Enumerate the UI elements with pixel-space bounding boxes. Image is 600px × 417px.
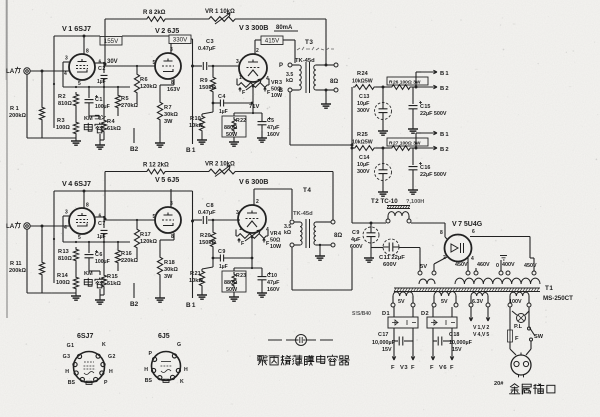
wire coupling ch2 [193, 219, 241, 222]
svg-text:163V: 163V [167, 87, 180, 93]
pin BS 6J5 [145, 376, 162, 384]
capacitor C17 10000u [394, 337, 413, 346]
label 电容 ch2 [84, 278, 104, 288]
terminal T1 5V-b [432, 271, 436, 275]
ground under C10 [257, 293, 267, 297]
pin 8 V7 [440, 230, 443, 236]
svg-text:300V: 300V [357, 108, 370, 114]
svg-text:MS-250CT: MS-250CT [543, 295, 573, 302]
ground under R22 [229, 137, 239, 146]
label 163V ch1 [167, 87, 180, 93]
svg-text:H: H [109, 369, 113, 375]
svg-text:V 6 300B: V 6 300B [239, 177, 268, 186]
terminal T1 HV-5 [532, 271, 536, 275]
svg-text:5V: 5V [398, 299, 405, 305]
svg-text:3: 3 [236, 210, 239, 216]
wire screen pin6 ch1 [95, 62, 105, 73]
svg-text:220kΩ: 220kΩ [121, 258, 138, 264]
svg-text:6J5: 6J5 [158, 333, 170, 340]
label 5V rectifier winding [420, 264, 427, 270]
svg-text:8Ω: 8Ω [330, 79, 338, 85]
svg-text:5: 5 [78, 81, 81, 87]
wire cathode V5 [160, 233, 174, 255]
label C17 value [372, 332, 396, 353]
label C8 0.47µF [198, 203, 216, 216]
pin P 6SJ7 [94, 377, 108, 386]
label R17 120kΩ [140, 232, 157, 245]
wire NFB to output transformer ch2 [332, 172, 334, 221]
tube V1 6SJ7 [69, 54, 95, 80]
svg-text:270kΩ: 270kΩ [121, 103, 138, 109]
pin 5 V5 [153, 214, 156, 220]
svg-text:160V: 160V [267, 132, 280, 138]
wire plate rail ch1 [54, 35, 169, 37]
svg-text:B 2: B 2 [440, 86, 449, 92]
label D1 [382, 311, 390, 317]
svg-text:R 9: R 9 [200, 78, 208, 84]
label C13 10µF 300V [357, 94, 370, 114]
svg-text:0: 0 [496, 263, 499, 269]
socket 6J5 internal [161, 362, 172, 373]
svg-text:V 1,V 2: V 1,V 2 [473, 325, 489, 331]
lamp P.L pilot [512, 311, 529, 323]
ground under R7 [155, 122, 165, 147]
svg-text:VR 2 10kΩ: VR 2 10kΩ [205, 162, 235, 168]
label T4 [303, 187, 311, 194]
ground T3 secondary [321, 90, 331, 108]
wire B2 feed ch2 [133, 283, 135, 298]
pin 2 V6 [256, 199, 259, 205]
svg-text:R 22: R 22 [236, 118, 246, 124]
switch SW [528, 327, 536, 341]
label T4 type [293, 211, 313, 217]
svg-text:R 25: R 25 [357, 132, 368, 138]
svg-text:8Ω: 8Ω [334, 233, 342, 239]
label 6.3V winding [472, 299, 483, 305]
resistor R1 200k [39, 105, 44, 122]
svg-text:10kΩ: 10kΩ [189, 278, 203, 284]
wire D1 outputs [394, 328, 413, 352]
svg-text:100µF: 100µF [95, 104, 110, 110]
resistor R24 10k 5W [353, 85, 376, 90]
tube V7 5U4G [445, 235, 472, 262]
resistor R12 2k [145, 169, 167, 174]
wire filter input rail [351, 87, 354, 223]
label F V&#8202;3 F [391, 365, 415, 371]
label 6J5 base [158, 333, 170, 340]
label 415V plate voltage [261, 36, 283, 45]
svg-text:2: 2 [256, 48, 259, 54]
resistor R5 270k/220k [115, 87, 120, 116]
svg-text:K: K [180, 379, 184, 385]
capacitor C18 10000u [433, 337, 452, 346]
svg-text:R 3: R 3 [57, 118, 65, 124]
label T3 type [295, 58, 315, 64]
wire scan-edge line [6, 0, 7, 318]
wire HV3 center tap [500, 256, 507, 272]
label C4 1µF [218, 94, 228, 115]
label R8 2kΩ [143, 10, 166, 16]
svg-text:D 1: D 1 [382, 311, 390, 317]
rectifier D1 selenium [388, 307, 418, 328]
label R1 200kΩ [9, 106, 26, 119]
wire plate V4 to rail [83, 190, 86, 209]
terminal T2 left [386, 219, 390, 223]
connector mains plug [511, 353, 531, 378]
socket 6J5 outline [152, 352, 181, 383]
svg-text:R 11: R 11 [10, 261, 22, 267]
svg-text:C 9: C 9 [352, 230, 359, 236]
svg-text:1µF: 1µF [97, 79, 106, 85]
label tube V5 6J5 [155, 175, 179, 184]
label C5 47µF 160V [267, 118, 280, 138]
svg-text:SW: SW [534, 334, 544, 340]
label T3 impedance [286, 72, 293, 84]
svg-text:C 6: C 6 [95, 252, 102, 258]
wire filter rail R25 [376, 147, 434, 150]
pin 3 V5 [170, 201, 173, 207]
label R13 810Ω [58, 249, 72, 262]
svg-text:KM: KM [84, 271, 93, 277]
svg-text:6: 6 [472, 229, 475, 235]
svg-text:22µF 500V: 22µF 500V [420, 172, 447, 178]
label 6SJ7 base [77, 333, 93, 340]
svg-text:H: H [65, 369, 69, 375]
svg-text:30kΩ: 30kΩ [164, 267, 178, 273]
svg-text:P: P [104, 380, 108, 386]
svg-text:150kΩ: 150kΩ [199, 85, 216, 91]
ground under R23 [229, 292, 239, 301]
label R3 100Ω [56, 118, 70, 131]
svg-text:10µF: 10µF [357, 101, 370, 107]
wire NFB to output transformer ch1 [325, 19, 327, 64]
svg-text:V 2 6J5: V 2 6J5 [155, 26, 179, 35]
resistor R2 810 [73, 92, 78, 108]
label F filament right ch2 [263, 239, 270, 248]
terminal 6.3V a [469, 303, 473, 307]
pin 6 V4 [99, 214, 102, 220]
svg-text:F: F [430, 365, 434, 371]
transformer T3 secondary coil [314, 65, 326, 90]
label 金属插口 [509, 384, 554, 394]
label 30V ch2 [0, 0, 1, 1]
wire D2 outputs [433, 328, 452, 352]
svg-text:1: 1 [239, 75, 242, 81]
label R15 value [107, 274, 121, 287]
ground T4 secondary [315, 244, 325, 260]
terminal 100V a [508, 303, 512, 307]
svg-text:F: F [411, 365, 415, 371]
svg-text:10kΩ: 10kΩ [189, 123, 203, 129]
fuse F [508, 330, 513, 342]
svg-text:330V: 330V [173, 36, 188, 43]
tube V5 6J5 [155, 207, 181, 233]
svg-text:4: 4 [64, 71, 67, 77]
ground under R10 [197, 133, 207, 144]
transformer T4 primary coil [300, 222, 302, 245]
pin 3 V1 [65, 56, 68, 62]
label 5V winding [398, 299, 405, 305]
svg-text:LA: LA [6, 223, 15, 230]
svg-text:C 16: C 16 [420, 165, 430, 171]
label C9 4µF 600V [350, 230, 363, 250]
transformer T4 secondary coil [314, 222, 331, 245]
svg-text:H: H [144, 367, 148, 373]
label VR3 50Ω 10W [271, 80, 283, 99]
svg-text:3: 3 [65, 56, 68, 62]
svg-text:TK-45d: TK-45d [293, 211, 313, 217]
capacitor C14 10u circle [375, 148, 392, 181]
resistor R16 270k/220k [115, 242, 120, 271]
resistor R22 880 50W [222, 116, 246, 137]
transformer T4 primary terminal B [290, 243, 300, 247]
terminal 5V a [391, 303, 395, 307]
terminal 5V b [454, 303, 458, 307]
label 20# [494, 381, 504, 387]
pin G 6J5 [172, 342, 181, 358]
svg-text:200kΩ: 200kΩ [9, 268, 26, 274]
coil T1 HV top [455, 278, 540, 284]
pin P 6J5 [149, 351, 157, 362]
svg-text:R 24: R 24 [357, 71, 369, 77]
svg-text:5: 5 [153, 60, 156, 66]
label R6 120kΩ [140, 77, 157, 90]
svg-text:kΩ: kΩ [284, 230, 291, 236]
wire plate rail ch2 [54, 190, 169, 192]
label R21 10kΩ [189, 271, 203, 284]
resistor R9 150k [210, 66, 215, 94]
pin 6 V1 [99, 60, 102, 66]
svg-text:460V: 460V [477, 262, 490, 268]
svg-text:H: H [184, 367, 188, 373]
label 400V tap [502, 262, 515, 268]
terminal 5V b [411, 303, 415, 307]
wire B1 arrow row R24 [421, 70, 449, 77]
svg-text:V 6: V 6 [439, 365, 447, 371]
label tube V3 300B [239, 23, 268, 32]
svg-text:3: 3 [236, 59, 239, 65]
wire under R9 ch2 [212, 249, 214, 267]
wire plate V3 to 415V [255, 40, 261, 54]
label C6 100µF [95, 252, 110, 265]
label R10 10kΩ [189, 116, 203, 129]
resistor R4 51k/61k [101, 87, 106, 134]
wire R2-R3 ch2 [75, 263, 77, 275]
label T3 8ohm [330, 79, 338, 85]
wire cathode split ch2 [234, 267, 262, 273]
pin K 6SJ7 [96, 342, 106, 358]
svg-text:5V: 5V [420, 264, 427, 270]
capacitor C4 1u [212, 100, 254, 107]
svg-text:100V: 100V [509, 299, 522, 305]
svg-text:KM: KM [84, 116, 93, 122]
svg-text:100µF: 100µF [95, 259, 110, 265]
resistor R7 30k [157, 100, 162, 122]
label F filament right ch1 [264, 88, 271, 97]
svg-text:C 17: C 17 [378, 332, 388, 338]
svg-text:T 4: T 4 [303, 187, 311, 194]
transformer T3 primary coil [299, 65, 301, 90]
svg-text:V 5 6J5: V 5 6J5 [155, 175, 179, 184]
ground under R21 [197, 288, 207, 299]
svg-text:G 1: G 1 [67, 343, 74, 349]
svg-text:kΩ: kΩ [286, 78, 293, 84]
svg-text:4µF: 4µF [351, 237, 361, 243]
pin 4 V6 [266, 227, 269, 233]
wire left vertical ch2 [53, 191, 55, 283]
label T3 [305, 39, 313, 46]
label R9 150kΩ [199, 78, 216, 91]
wire plate V1 to rail [83, 35, 86, 55]
wire B1 riser R24 [416, 72, 421, 87]
inductor T2 choke [387, 206, 410, 220]
wire grid resistor bottom ch1 [41, 122, 43, 138]
svg-text:VR 1 10kΩ: VR 1 10kΩ [205, 9, 235, 15]
svg-text:200kΩ: 200kΩ [9, 113, 26, 119]
resistor R14 100 [73, 275, 78, 291]
terminal T1 HV-2 [474, 271, 478, 275]
capacitor C3 0.47u [203, 62, 206, 70]
svg-text:R 23: R 23 [236, 273, 246, 279]
svg-text:51kΩ: 51kΩ [107, 281, 121, 287]
label T1 [545, 285, 553, 292]
pin 3 V3 [236, 59, 239, 65]
svg-text:450V: 450V [455, 262, 468, 268]
svg-text:150kΩ: 150kΩ [199, 240, 216, 246]
svg-text:C 9: C 9 [218, 249, 225, 255]
svg-text:3W: 3W [164, 119, 173, 125]
wire R2-R3 ch1 [75, 108, 77, 120]
svg-text:V 4 6SJ7: V 4 6SJ7 [62, 179, 91, 188]
label 71V ch2 [0, 0, 1, 1]
wire pot wiper down ch1 [252, 85, 254, 113]
resistor R13 810 [73, 247, 78, 263]
svg-text:C 10: C 10 [267, 273, 277, 279]
label C16 22µF 500V [420, 165, 447, 178]
ground under C5 [257, 138, 267, 142]
terminal T1 HV-1 [466, 271, 470, 275]
coil T1 5V top [419, 279, 435, 284]
svg-text:R 14: R 14 [57, 273, 69, 279]
terminal T1 HV-4 [506, 271, 510, 275]
svg-text:50Ω: 50Ω [270, 238, 281, 244]
svg-text:10,000µF: 10,000µF [372, 340, 396, 346]
svg-text:15V: 15V [382, 347, 392, 353]
pin 5 V4 [78, 235, 81, 241]
wire B1 riser R25 [416, 133, 421, 148]
capacitor C5 47u [258, 117, 272, 138]
wire choke to rectifier [411, 223, 445, 237]
label R26 100Ω 3W [387, 77, 428, 86]
wire plate V6 to primary [254, 189, 292, 219]
label VR2 10kΩ [205, 162, 235, 168]
svg-text:V 4,V 5: V 4,V 5 [473, 332, 489, 338]
wire B2 arrow row R24 [421, 85, 449, 92]
wire jack sleeve drop ch1 [26, 74, 28, 138]
pin 4 V4 [64, 225, 67, 231]
label VR1 10kΩ [205, 9, 235, 15]
pin 3 V4 [65, 210, 68, 216]
label R22 880Ω 50W [224, 118, 246, 138]
wire input bottom rail ch1 [27, 137, 76, 139]
resistor R27 100 3W [390, 146, 412, 151]
wire jack sleeve drop ch2 [26, 229, 28, 293]
core T1 laminations [394, 288, 540, 292]
label 330V plate voltage [169, 35, 191, 44]
svg-text:0.47µF: 0.47µF [198, 46, 216, 52]
svg-text:880Ω: 880Ω [224, 125, 238, 131]
svg-text:5: 5 [78, 235, 81, 241]
label B1 ch1 [186, 147, 196, 154]
ground under C16 [408, 190, 418, 194]
tube V6 300B [238, 205, 266, 233]
svg-text:R 16: R 16 [121, 251, 132, 257]
label R27 100Ω 3W [387, 138, 428, 147]
svg-text:G: G [177, 342, 181, 348]
pin H-a 6J5 [144, 367, 155, 373]
label tube V1 6SJ7 [62, 24, 91, 33]
label SW [534, 334, 544, 340]
pin 1 V3 [239, 75, 242, 81]
label input ch2 [6, 222, 21, 230]
label C10 47µF 160V [267, 273, 280, 293]
svg-text:F: F [391, 365, 395, 371]
pin 5 V1 [78, 81, 81, 87]
wire R4 bottom ch2 [100, 289, 104, 295]
label R7 30kΩ 3W [164, 105, 178, 125]
svg-text:K: K [102, 342, 106, 348]
jack input ch2 [24, 223, 69, 229]
label F filament left ch1 [239, 88, 246, 97]
label heater tubes [473, 325, 489, 338]
label B1 ch2 [186, 302, 196, 309]
wire T4 B to supply [292, 247, 352, 290]
terminal 6.3V b [486, 303, 490, 307]
label VR4 50Ω 10W [270, 231, 282, 250]
svg-text:LA: LA [6, 68, 15, 75]
label 0 tap [496, 263, 499, 269]
svg-text:C 15: C 15 [420, 104, 430, 110]
svg-text:80mA: 80mA [276, 25, 293, 31]
ground under R14 [71, 291, 81, 300]
wire NFB drop to cathode ch1 [104, 19, 107, 66]
wire to V5 grid [104, 219, 155, 221]
transformer T4 secondary terminals [331, 220, 335, 247]
coil T1 6.3V bottom [471, 292, 488, 303]
ground under C14 [378, 181, 388, 197]
label C3 0.47µF [198, 39, 216, 52]
resistor R20 150k [210, 220, 215, 249]
svg-text:R 15: R 15 [107, 274, 118, 280]
wire V7 pin2 to 5V winding [434, 257, 447, 271]
pin 2 V3 [256, 48, 259, 54]
resistor R17 120k [134, 220, 139, 259]
svg-text:D 2: D 2 [421, 311, 429, 317]
pin G3 6SJ7 [63, 354, 77, 367]
resistor R8 2k [145, 17, 167, 22]
svg-text:C 11 22µF: C 11 22µF [379, 255, 405, 261]
transformer T3 primary terminal P [279, 63, 299, 69]
svg-text:B2: B2 [130, 146, 139, 153]
wire under R9 ch1 [212, 94, 214, 112]
jack input ch1 [24, 68, 69, 74]
resistor R6 120k [134, 66, 139, 104]
svg-text:V 1 6SJ7: V 1 6SJ7 [62, 24, 91, 33]
svg-text:R 4: R 4 [107, 119, 116, 125]
coil T1 100V bottom [510, 292, 529, 303]
transformer T4 primary terminal P [290, 220, 300, 224]
svg-text:100Ω: 100Ω [56, 280, 70, 286]
